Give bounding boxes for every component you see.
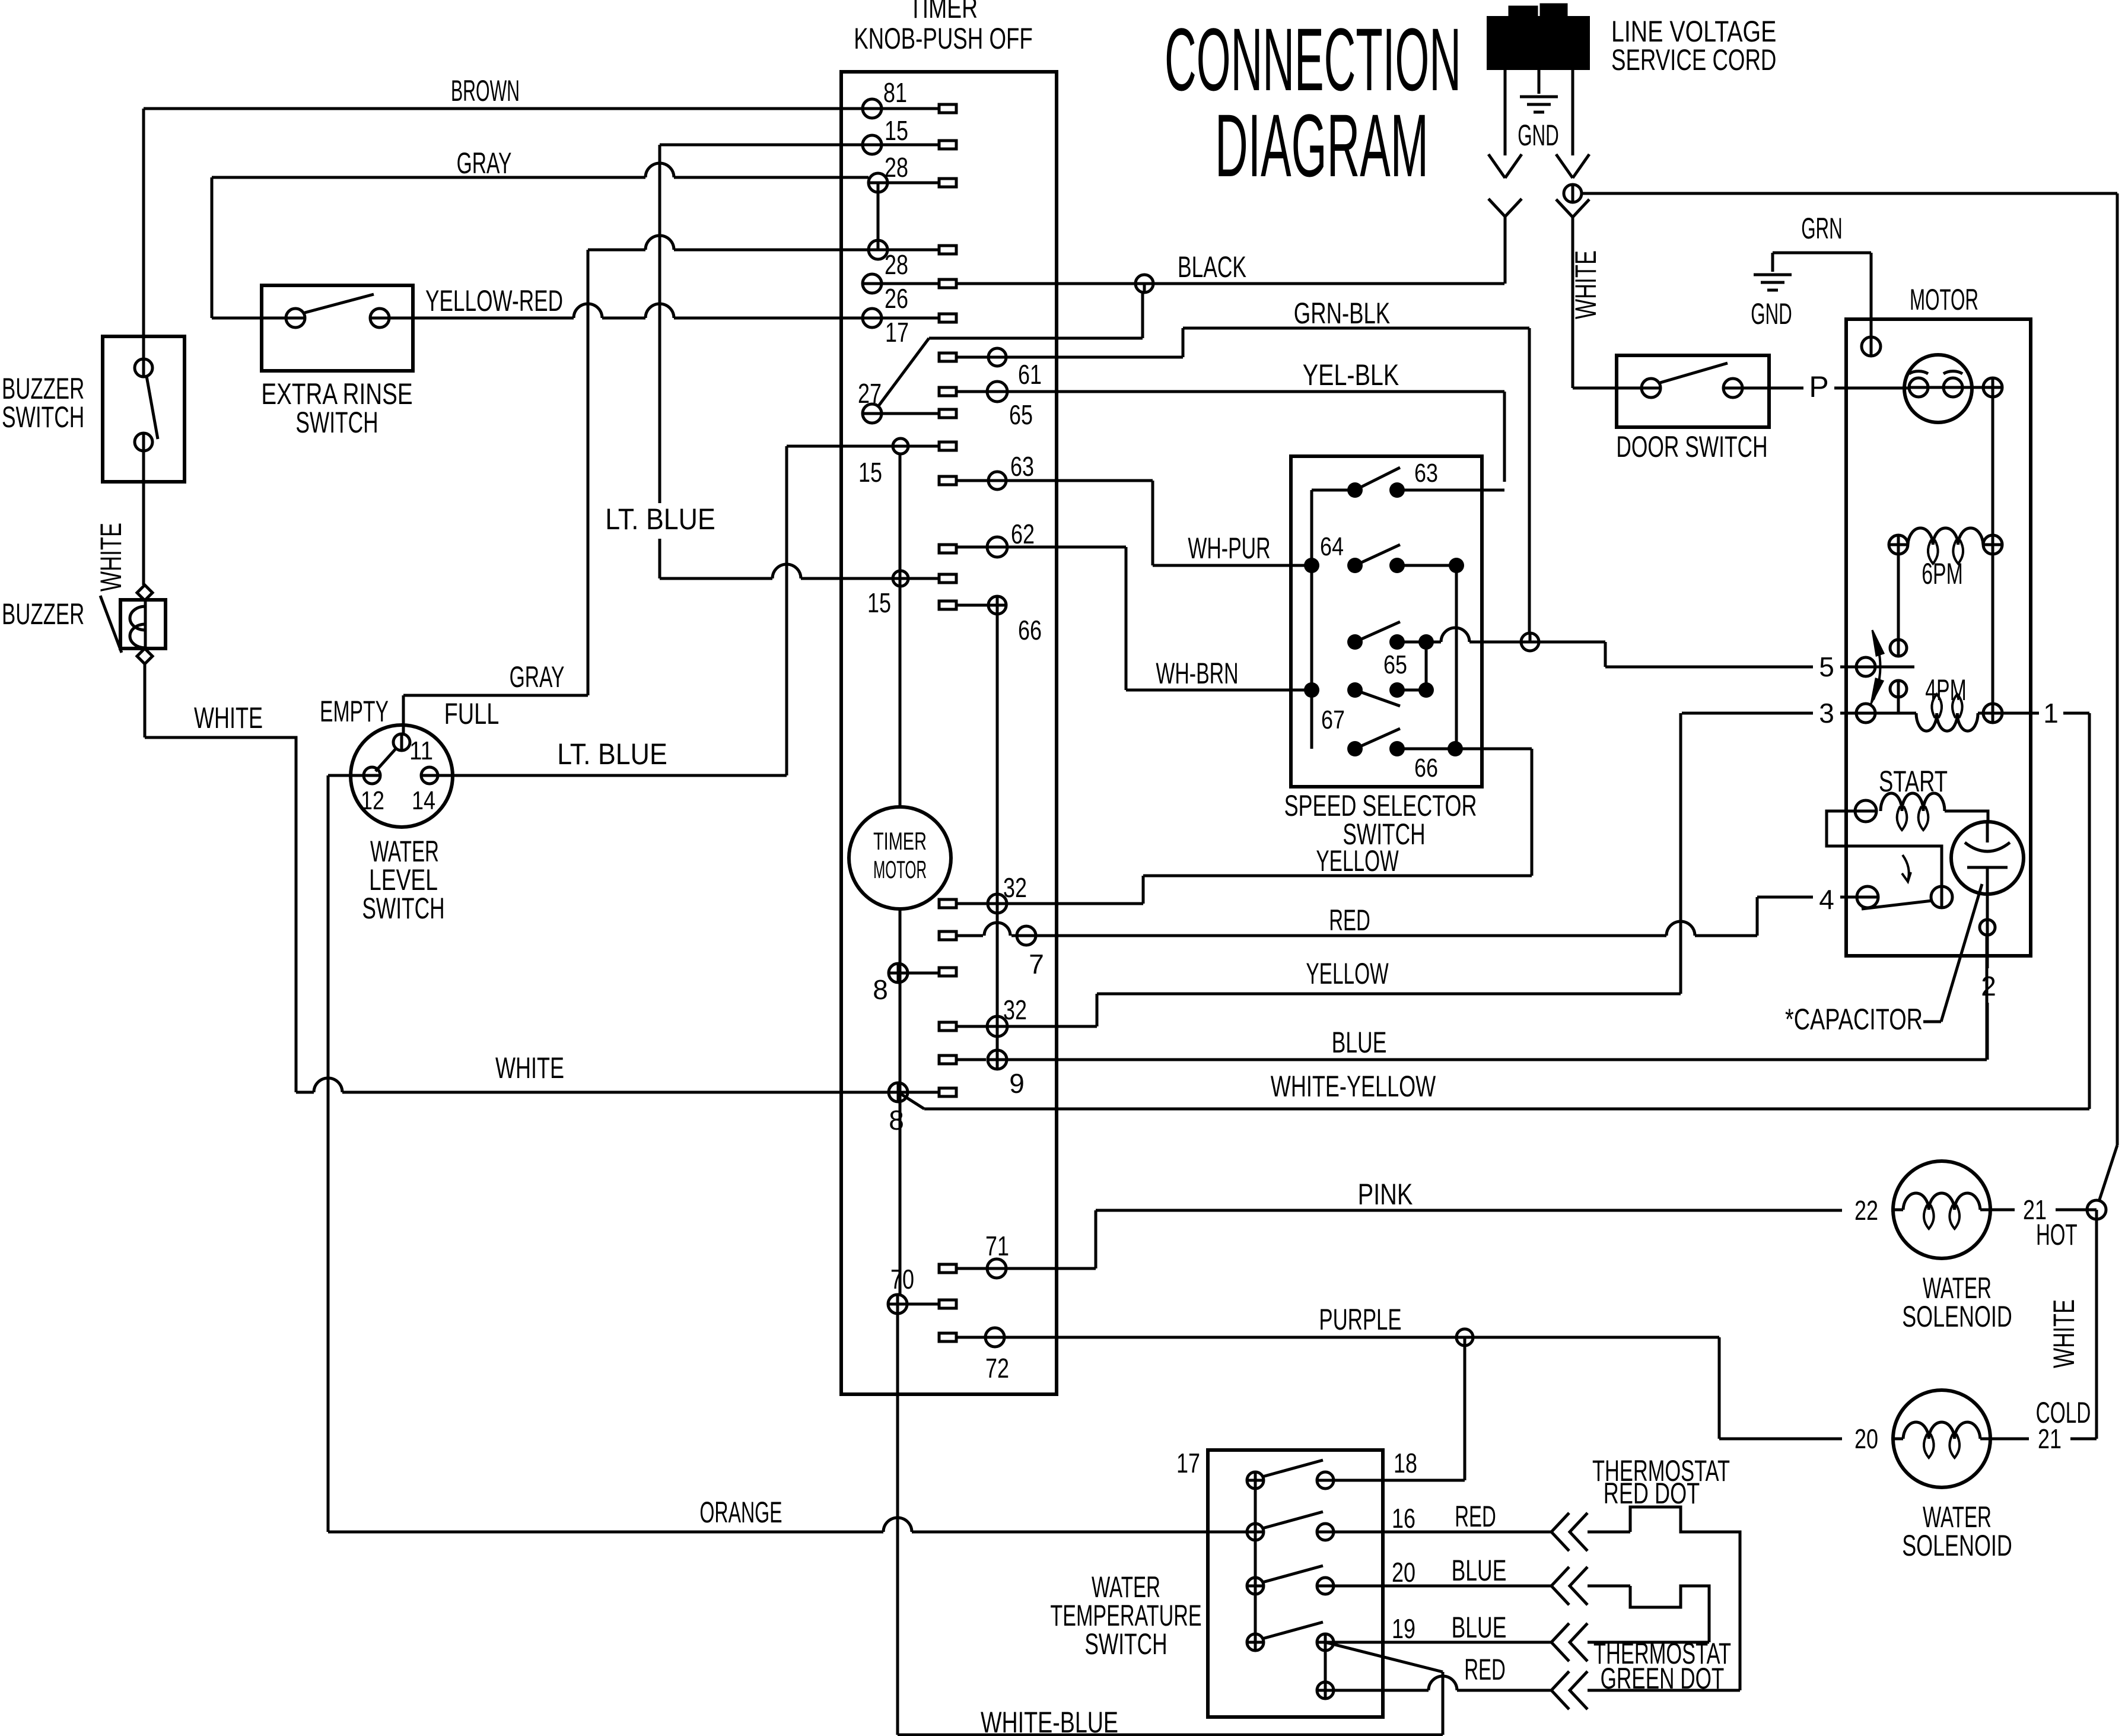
- svg-text:ORANGE: ORANGE: [699, 1496, 782, 1529]
- svg-text:WH-BRN: WH-BRN: [1156, 657, 1238, 690]
- svg-text:SOLENOID: SOLENOID: [1902, 1529, 2012, 1562]
- svg-text:RED: RED: [1329, 904, 1370, 937]
- svg-text:*CAPACITOR: *CAPACITOR: [1785, 1003, 1923, 1036]
- svg-text:WH-PUR: WH-PUR: [1188, 532, 1270, 565]
- svg-text:HOT: HOT: [2036, 1218, 2078, 1251]
- svg-text:SOLENOID: SOLENOID: [1902, 1300, 2012, 1333]
- svg-text:7: 7: [1029, 949, 1044, 980]
- svg-text:20: 20: [1392, 1557, 1415, 1588]
- svg-text:YELLOW-RED: YELLOW-RED: [425, 284, 563, 317]
- svg-text:EMPTY: EMPTY: [320, 695, 389, 728]
- svg-text:GRAY: GRAY: [510, 660, 565, 694]
- svg-text:17: 17: [1176, 1448, 1200, 1479]
- svg-text:BROWN: BROWN: [451, 74, 520, 107]
- svg-text:1: 1: [2043, 698, 2059, 729]
- svg-text:9: 9: [1009, 1068, 1025, 1099]
- svg-text:GRAY: GRAY: [457, 147, 512, 180]
- svg-text:11: 11: [409, 736, 433, 765]
- svg-text:SWITCH: SWITCH: [295, 406, 378, 439]
- svg-text:YEL-BLK: YEL-BLK: [1303, 358, 1399, 392]
- svg-text:17: 17: [885, 317, 909, 348]
- svg-text:5: 5: [1819, 651, 1834, 682]
- svg-text:62: 62: [1011, 519, 1035, 549]
- svg-text:32: 32: [1003, 994, 1027, 1025]
- svg-text:KNOB-PUSH OFF: KNOB-PUSH OFF: [854, 22, 1033, 55]
- svg-text:CONNECTION: CONNECTION: [1165, 9, 1461, 109]
- svg-text:65: 65: [1383, 650, 1407, 679]
- svg-text:81: 81: [883, 77, 907, 108]
- svg-text:P: P: [1809, 370, 1828, 403]
- svg-text:63: 63: [1414, 459, 1438, 488]
- svg-text:WHITE: WHITE: [495, 1051, 564, 1085]
- svg-text:3: 3: [1819, 698, 1834, 729]
- svg-text:WHITE: WHITE: [2047, 1299, 2081, 1368]
- svg-text:18: 18: [1394, 1448, 1417, 1479]
- svg-text:LT. BLUE: LT. BLUE: [605, 503, 715, 536]
- svg-text:64: 64: [1320, 532, 1344, 561]
- svg-text:70: 70: [890, 1264, 914, 1295]
- svg-text:66: 66: [1414, 753, 1438, 783]
- svg-text:4: 4: [1819, 884, 1834, 915]
- svg-text:8: 8: [889, 1105, 904, 1136]
- svg-text:BLACK: BLACK: [1178, 250, 1246, 284]
- svg-text:2: 2: [1981, 971, 1996, 1001]
- svg-text:SERVICE CORD: SERVICE CORD: [1611, 43, 1776, 77]
- svg-text:TIMER: TIMER: [909, 0, 978, 24]
- svg-text:FULL: FULL: [444, 697, 500, 730]
- svg-text:65: 65: [1009, 399, 1033, 430]
- svg-text:20: 20: [1854, 1423, 1878, 1454]
- svg-text:RED: RED: [1464, 1653, 1506, 1686]
- svg-text:GND: GND: [1751, 297, 1792, 330]
- svg-text:WHITE: WHITE: [1569, 250, 1602, 319]
- svg-text:15: 15: [858, 457, 882, 488]
- svg-text:SWITCH: SWITCH: [362, 892, 444, 925]
- svg-text:71: 71: [985, 1231, 1009, 1261]
- svg-text:16: 16: [1392, 1503, 1415, 1534]
- svg-text:8: 8: [873, 974, 888, 1005]
- svg-text:21: 21: [2038, 1423, 2062, 1454]
- svg-text:72: 72: [985, 1353, 1009, 1384]
- svg-text:YELLOW: YELLOW: [1316, 844, 1399, 877]
- svg-text:WHITE: WHITE: [194, 701, 263, 735]
- svg-text:LT. BLUE: LT. BLUE: [557, 737, 667, 771]
- svg-text:PINK: PINK: [1358, 1178, 1413, 1211]
- svg-text:WHITE-YELLOW: WHITE-YELLOW: [1271, 1070, 1436, 1103]
- svg-text:YELLOW: YELLOW: [1306, 957, 1389, 990]
- svg-text:MOTOR: MOTOR: [873, 856, 927, 883]
- svg-text:66: 66: [1018, 615, 1042, 646]
- svg-text:MOTOR: MOTOR: [1910, 283, 1978, 316]
- svg-text:GRN-BLK: GRN-BLK: [1294, 297, 1390, 330]
- svg-text:6PM: 6PM: [1922, 557, 1963, 590]
- svg-text:22: 22: [1854, 1195, 1878, 1226]
- svg-text:28: 28: [885, 249, 908, 280]
- svg-text:BUZZER: BUZZER: [2, 597, 84, 631]
- svg-text:61: 61: [1018, 359, 1042, 390]
- svg-text:BLUE: BLUE: [1452, 1611, 1507, 1644]
- svg-text:28: 28: [885, 152, 908, 183]
- svg-text:26: 26: [885, 283, 908, 314]
- svg-text:19: 19: [1392, 1613, 1415, 1644]
- svg-text:DOOR SWITCH: DOOR SWITCH: [1616, 430, 1767, 463]
- svg-text:15: 15: [867, 587, 891, 618]
- svg-text:12: 12: [361, 786, 384, 815]
- svg-text:67: 67: [1321, 705, 1345, 735]
- svg-text:32: 32: [1003, 872, 1027, 903]
- svg-text:63: 63: [1010, 451, 1034, 482]
- svg-text:SWITCH: SWITCH: [2, 400, 84, 434]
- svg-text:DIAGRAM: DIAGRAM: [1215, 96, 1429, 195]
- svg-text:GND: GND: [1518, 119, 1559, 152]
- svg-text:RED DOT: RED DOT: [1604, 1477, 1700, 1510]
- svg-text:BLUE: BLUE: [1332, 1026, 1387, 1059]
- svg-text:GREEN DOT: GREEN DOT: [1601, 1662, 1725, 1695]
- svg-text:RED: RED: [1455, 1500, 1496, 1533]
- svg-text:15: 15: [885, 115, 908, 146]
- svg-text:PURPLE: PURPLE: [1319, 1303, 1401, 1336]
- svg-text:TIMER: TIMER: [873, 827, 927, 855]
- svg-text:14: 14: [412, 786, 435, 815]
- svg-text:WHITE-BLUE: WHITE-BLUE: [981, 1706, 1118, 1736]
- svg-text:BLUE: BLUE: [1452, 1554, 1507, 1587]
- svg-text:WHITE: WHITE: [94, 523, 128, 592]
- svg-text:SWITCH: SWITCH: [1084, 1627, 1167, 1661]
- svg-text:GRN: GRN: [1801, 212, 1843, 245]
